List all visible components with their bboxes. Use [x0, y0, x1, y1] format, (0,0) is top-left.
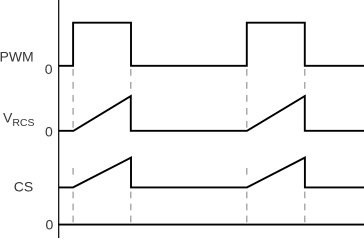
- svg-text:0: 0: [45, 61, 53, 77]
- svg-text:PWM: PWM: [0, 48, 34, 64]
- dashed timing line t1 (PWM rise 1): [72, 69, 74, 223]
- dashed timing line t4 (PWM fall 2): [304, 69, 306, 223]
- vertical axis: [58, 0, 60, 238]
- svg-text:0: 0: [45, 124, 53, 140]
- CS waveform: [59, 158, 364, 188]
- V_RCS waveform: [59, 96, 364, 131]
- svg-text:VRCS: VRCS: [3, 110, 35, 130]
- dashed timing line t3 (PWM rise 2): [246, 69, 248, 223]
- svg-text:0: 0: [46, 217, 54, 233]
- svg-text:CS: CS: [14, 179, 33, 195]
- CS zero baseline: [58, 224, 364, 226]
- dashed timing line t2 (PWM fall 1): [130, 69, 132, 223]
- PWM waveform: [59, 23, 364, 66]
